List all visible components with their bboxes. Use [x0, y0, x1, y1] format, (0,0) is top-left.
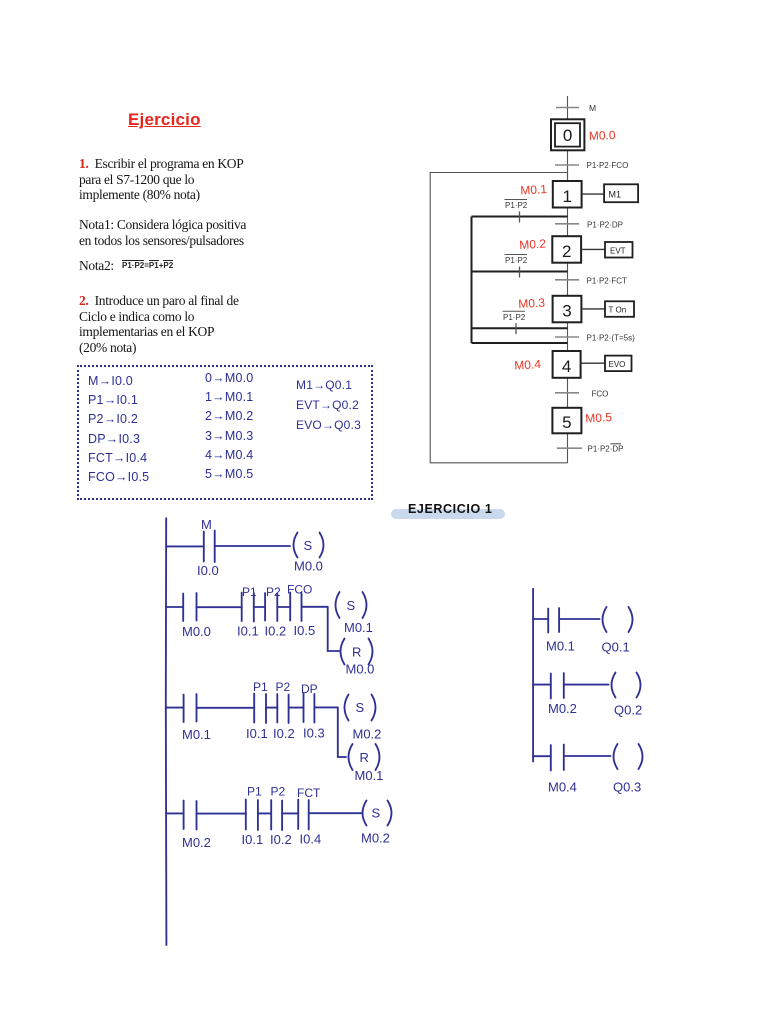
contact I0.0 (M) — [204, 531, 215, 563]
EJERCICIO 1 handwritten label — [408, 502, 492, 516]
svg-text:I0.2: I0.2 — [265, 624, 287, 639]
svg-text:DP: DP — [301, 682, 318, 696]
transition P1·P2·(T=5s) tick — [555, 336, 579, 338]
svg-text:P1·P2: P1·P2 — [503, 313, 526, 322]
svg-text:M0.1: M0.1 — [546, 639, 575, 654]
contact M0.1 — [184, 694, 197, 722]
coil R M0.1 — [349, 744, 380, 770]
svg-text:P1·P2: P1·P2 — [505, 256, 528, 265]
coil Q0.2 — [612, 673, 641, 698]
svg-text:M0.1: M0.1 — [355, 768, 384, 783]
svg-text:1: 1 — [562, 187, 571, 206]
branch 2 label not(P1·P2) — [505, 255, 528, 266]
svg-text:M0.2: M0.2 — [182, 835, 211, 850]
contact I0.2 (P2) — [271, 800, 282, 830]
svg-text:I0.1: I0.1 — [242, 832, 264, 847]
paragraph Nota2 with formula — [79, 258, 114, 274]
svg-text:P1: P1 — [253, 680, 268, 694]
branch 3 transition tick — [515, 323, 517, 334]
svg-text:Q0.2: Q0.2 — [614, 703, 642, 718]
svg-text:P1·P2·DP: P1·P2·DP — [588, 445, 624, 454]
branch 2 transition tick — [519, 267, 521, 278]
contact I0.1 (P1) — [254, 694, 266, 724]
coil S M0.2 — [345, 695, 376, 721]
svg-text:M0.4: M0.4 — [548, 780, 577, 795]
svg-text:P1: P1 — [247, 785, 262, 799]
svg-text:T On: T On — [609, 306, 627, 315]
svg-text:R: R — [352, 645, 361, 660]
contact M0.1 — [548, 608, 559, 633]
transition M tick — [556, 107, 579, 109]
svg-text:I0.2: I0.2 — [273, 726, 295, 741]
rung 1 wire out — [215, 545, 290, 547]
step 3 — [553, 296, 582, 323]
svg-text:3: 3 — [562, 302, 571, 321]
svg-text:I0.0: I0.0 — [197, 563, 219, 578]
rung 2 wire seg — [277, 606, 290, 608]
svg-text:M0.1: M0.1 — [182, 727, 211, 742]
svg-text:I0.4: I0.4 — [300, 832, 322, 847]
svg-text:4: 4 — [562, 357, 571, 376]
svg-text:S: S — [372, 806, 381, 821]
svg-text:P1·P2·FCO: P1·P2·FCO — [587, 161, 629, 170]
coil Q0.1 — [603, 607, 633, 632]
wire to action EVO — [581, 362, 605, 364]
contact I0.3 (DP) — [304, 694, 315, 723]
mapping column steps — [205, 371, 253, 486]
transition P1·P2·FCO tick — [555, 164, 579, 166]
label P1·P2·notDP — [588, 444, 624, 454]
svg-text:I0.3: I0.3 — [303, 726, 325, 741]
mapping column outputs — [296, 378, 361, 438]
rung 3 wire seg — [197, 707, 255, 709]
svg-text:M0.0: M0.0 — [182, 624, 211, 639]
contact I0.2 (P2) — [265, 593, 277, 621]
wire step1 to step2 — [567, 207, 569, 236]
svg-text:M0.4: M0.4 — [514, 357, 542, 372]
step 4 — [553, 351, 581, 378]
action box EVT — [605, 242, 633, 258]
rung 4 wire seg — [258, 812, 271, 814]
rung 3 wire seg — [289, 707, 304, 709]
svg-text:M0.1: M0.1 — [520, 182, 548, 197]
GRAFCET diagram — [420, 90, 750, 480]
step 5 — [552, 408, 581, 434]
mapping column inputs — [88, 374, 149, 489]
svg-text:P1: P1 — [242, 585, 257, 599]
rung 3 wire to junction — [314, 706, 337, 708]
formula not(P1·P2) = not(P1) + not(P2) — [122, 261, 173, 270]
right rung 3 wire in — [533, 755, 551, 757]
KOP ladder diagrams (hand drawn) — [140, 500, 660, 960]
svg-text:P1·P2·DP: P1·P2·DP — [587, 220, 623, 229]
rung 2 wire seg — [254, 606, 265, 608]
paragraph Nota1 — [79, 217, 246, 248]
wire to action T On — [581, 308, 605, 310]
svg-text:M0.0: M0.0 — [294, 559, 323, 574]
left power rail — [165, 518, 168, 945]
contact I0.5 (FCO) — [290, 593, 301, 622]
svg-text:I0.5: I0.5 — [294, 623, 316, 638]
branch 1 label not(P1·P2) — [505, 200, 528, 211]
rung 2 wire in — [166, 606, 183, 608]
contact M0.0 — [183, 593, 196, 621]
contact M0.2 — [184, 801, 197, 830]
svg-text:M0.1: M0.1 — [344, 620, 373, 635]
rung 3 wire seg — [266, 707, 277, 709]
svg-text:S: S — [304, 538, 313, 553]
rung 4 wire in — [166, 812, 183, 814]
action box T On — [605, 301, 634, 317]
svg-text:M1: M1 — [609, 189, 622, 199]
wire feedback loop — [430, 173, 567, 463]
svg-text:P1·P2: P1·P2 — [505, 201, 528, 210]
wire step3 to step4 — [567, 322, 569, 351]
branch wire 2 — [472, 271, 568, 273]
transition P1·P2·FCT tick — [555, 279, 579, 281]
rung 4 wire seg — [197, 813, 246, 815]
svg-text:M0.0: M0.0 — [589, 128, 616, 143]
contact M0.4 — [551, 745, 564, 771]
dotted mapping box — [77, 365, 373, 500]
svg-text:R: R — [360, 750, 369, 765]
coil S M0.2 — [363, 801, 392, 826]
right rung 1 wire — [559, 618, 599, 620]
svg-text:S: S — [356, 700, 365, 715]
svg-text:S: S — [347, 598, 356, 613]
coil Q0.3 — [614, 744, 643, 769]
wire step4 to step5 — [567, 378, 569, 408]
svg-text:P2: P2 — [266, 585, 281, 599]
wire step5 down — [567, 433, 569, 463]
contact I0.1 (P1) — [246, 800, 258, 831]
right rung 3 wire — [564, 755, 611, 757]
branch rail left — [471, 217, 473, 344]
svg-text:M0.5: M0.5 — [585, 410, 613, 425]
EJERCICIO 1 highlight pill — [391, 509, 505, 519]
branch wire 3 — [472, 327, 568, 329]
rung 2 wire seg — [197, 606, 242, 608]
right ladder power rail — [532, 589, 534, 762]
branch wire 1 — [472, 216, 568, 218]
step 1 — [553, 181, 582, 208]
svg-text:I0.1: I0.1 — [246, 726, 268, 741]
svg-text:M: M — [589, 103, 596, 113]
svg-text:EVO: EVO — [609, 360, 626, 369]
right rung 2 wire — [564, 684, 609, 686]
svg-text:M0.2: M0.2 — [361, 831, 390, 846]
wire step2 to step3 — [567, 263, 569, 296]
paragraph 2 — [79, 293, 239, 355]
branch merge wire — [472, 342, 568, 344]
svg-text:P1·P2·(T=5s): P1·P2·(T=5s) — [587, 334, 636, 343]
wire main top — [567, 96, 569, 119]
svg-text:I0.1: I0.1 — [237, 624, 259, 639]
right rung 1 wire in — [533, 618, 548, 620]
transition P1·P2·notDP tick — [557, 447, 582, 449]
right rung 2 wire in — [533, 684, 551, 686]
rung 4 wire to coil — [309, 812, 362, 814]
rung 3 wire in — [166, 707, 183, 709]
svg-text:FCT: FCT — [297, 786, 321, 800]
wire to action M1 — [582, 193, 605, 195]
contact I0.2 (P2) — [277, 694, 288, 723]
branch 3 label not(P1·P2) — [503, 311, 526, 322]
coil S M0.0 — [294, 533, 324, 558]
transition FCO tick — [555, 392, 579, 394]
contact M0.2 — [551, 673, 564, 699]
svg-text:M0.3: M0.3 — [518, 296, 546, 311]
title Ejercicio — [128, 110, 201, 130]
wire transition to step1 — [567, 165, 569, 181]
contact I0.4 (FCT) — [298, 800, 309, 830]
coil S M0.1 — [336, 592, 367, 618]
svg-text:FCO: FCO — [287, 583, 312, 597]
rung 2 wire to junction — [302, 606, 328, 608]
wire step0 to transition — [567, 150, 569, 181]
step 2 — [552, 236, 581, 263]
svg-text:0: 0 — [563, 126, 572, 145]
svg-text:P2: P2 — [276, 680, 291, 694]
rung 1 wire in — [166, 545, 202, 547]
svg-text:I0.2: I0.2 — [270, 832, 292, 847]
junction branch wire — [338, 707, 346, 757]
svg-text:2: 2 — [562, 242, 571, 261]
svg-text:M0.2: M0.2 — [519, 237, 547, 252]
svg-text:Q0.1: Q0.1 — [602, 640, 630, 655]
wire to action EVT — [581, 248, 605, 250]
svg-text:M: M — [201, 517, 212, 532]
branch 1 transition tick — [519, 212, 521, 223]
svg-text:Q0.3: Q0.3 — [613, 780, 641, 795]
transition P1·P2·DP tick — [555, 223, 579, 225]
paragraph 1 — [79, 156, 243, 203]
junction branch wire — [328, 607, 339, 651]
svg-text:M0.2: M0.2 — [548, 701, 577, 716]
svg-text:P2: P2 — [271, 785, 286, 799]
coil R M0.0 — [341, 639, 373, 665]
action box M1 — [604, 184, 638, 202]
svg-text:5: 5 — [562, 413, 571, 432]
svg-text:M0.0: M0.0 — [346, 662, 375, 677]
svg-text:P1·P2·FCT: P1·P2·FCT — [587, 276, 628, 285]
contact I0.1 (P1) — [242, 593, 254, 622]
svg-text:EVT: EVT — [610, 246, 626, 255]
svg-text:M0.2: M0.2 — [353, 727, 382, 742]
action box EVO — [605, 356, 632, 372]
svg-text:FCO: FCO — [592, 389, 609, 398]
step 0 — [551, 119, 584, 150]
rung 4 wire seg — [282, 812, 298, 814]
